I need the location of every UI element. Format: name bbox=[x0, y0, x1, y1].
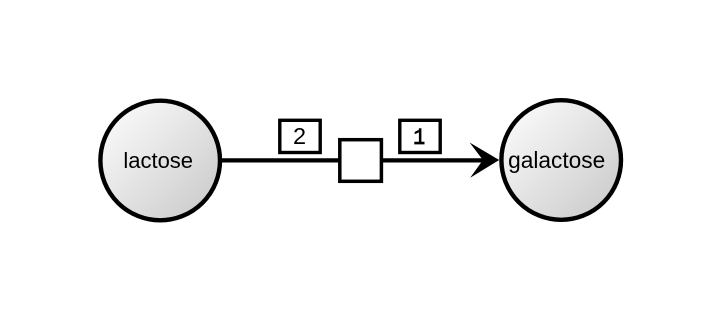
weight box 2 bbox=[280, 120, 320, 152]
digit 1 (drawn with base bar) bbox=[414, 128, 424, 144]
node lactose bbox=[100, 101, 220, 221]
weight box 1 bbox=[400, 120, 440, 152]
transition square bbox=[340, 140, 382, 182]
svg-text:galactose: galactose bbox=[508, 147, 605, 173]
node galactose bbox=[501, 100, 621, 220]
svg-text:2: 2 bbox=[293, 123, 306, 149]
wire bbox=[218, 158, 486, 162]
svg-text:lactose: lactose bbox=[123, 148, 193, 173]
arrowhead bbox=[470, 143, 500, 178]
